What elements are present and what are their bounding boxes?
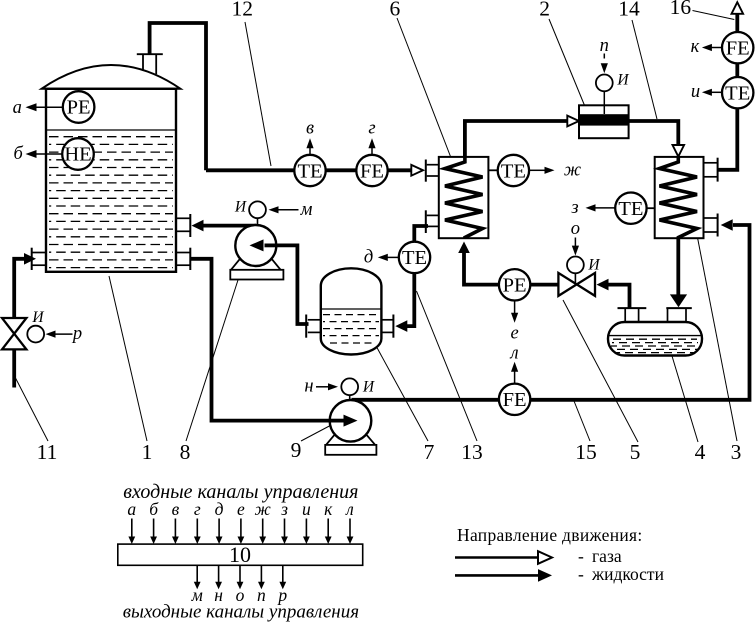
svg-text:л: л [510,344,519,364]
svg-text:газа: газа [592,546,622,566]
svg-text:PE: PE [67,97,91,119]
svg-text:е: е [237,499,245,519]
svg-text:10: 10 [229,542,251,567]
svg-text:3: 3 [731,440,742,464]
svg-text:И: И [616,72,629,89]
svg-text:выходные каналы управления: выходные каналы управления [123,602,359,622]
svg-text:и: и [691,82,700,102]
svg-text:13: 13 [461,440,483,464]
svg-text:и: и [302,499,311,519]
svg-text:жидкости: жидкости [591,564,664,584]
svg-text:И: И [31,309,44,326]
svg-text:е: е [510,324,518,344]
svg-text:м: м [300,200,313,220]
svg-text:16: 16 [670,0,692,19]
svg-text:з: з [280,499,288,519]
svg-text:п: п [600,36,609,56]
svg-text:в: в [306,119,314,139]
svg-text:д: д [215,499,224,519]
svg-text:И: И [234,199,247,216]
svg-text:7: 7 [424,440,435,464]
svg-text:л: л [345,499,354,519]
svg-text:9: 9 [291,438,302,462]
svg-text:г: г [368,119,375,139]
svg-text:-: - [578,546,584,566]
svg-text:И: И [362,379,375,396]
svg-text:TE: TE [402,247,427,269]
svg-text:И: И [587,257,600,274]
svg-text:н: н [304,377,313,397]
svg-text:к: к [324,499,333,519]
svg-text:HE: HE [64,144,91,166]
svg-text:д: д [364,247,373,267]
svg-text:11: 11 [37,440,58,464]
svg-text:FE: FE [726,38,750,60]
svg-text:б: б [149,499,159,519]
svg-text:ж: ж [564,160,581,180]
svg-text:TE: TE [725,83,750,105]
svg-text:TE: TE [618,198,643,220]
svg-text:TE: TE [297,160,322,182]
svg-text:6: 6 [390,0,401,20]
svg-text:1: 1 [142,440,153,464]
svg-text:2: 2 [539,0,550,20]
svg-text:12: 12 [232,0,254,20]
svg-text:к: к [691,37,700,57]
svg-text:-: - [578,564,584,584]
svg-text:Направление движения:: Направление движения: [457,525,643,545]
svg-text:ж: ж [255,499,272,519]
svg-text:FE: FE [360,160,384,182]
svg-text:TE: TE [501,160,526,182]
svg-text:5: 5 [630,440,641,464]
svg-text:14: 14 [618,0,640,20]
svg-text:г: г [194,499,201,519]
svg-text:р: р [71,324,82,344]
svg-text:о: о [571,219,580,239]
svg-text:в: в [172,499,180,519]
svg-text:з: з [570,198,578,218]
svg-text:б: б [14,144,24,164]
svg-text:15: 15 [575,440,597,464]
svg-text:а: а [13,98,22,118]
svg-text:а: а [127,499,136,519]
svg-text:FE: FE [503,389,527,411]
svg-text:8: 8 [180,440,191,464]
svg-text:4: 4 [695,440,706,464]
svg-text:PE: PE [503,275,527,297]
